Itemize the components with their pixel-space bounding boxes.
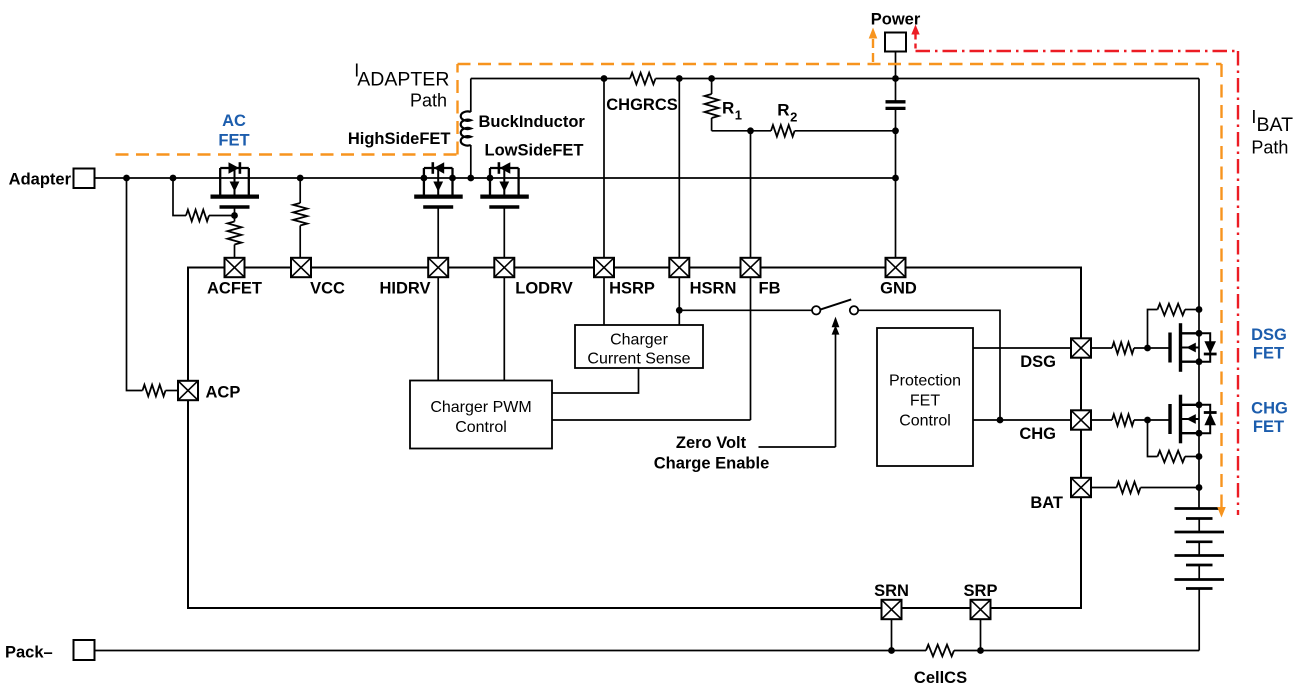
- svg-text:DSG: DSG: [1020, 353, 1056, 371]
- label CHG FET (blue): [1251, 400, 1288, 437]
- wire DSG pullup to rail: [1185, 309, 1199, 311]
- svg-text:Zero Volt: Zero Volt: [676, 434, 747, 452]
- wire HIDRV gate: [437, 207, 439, 258]
- terminal Power: [885, 33, 906, 52]
- junction dot CHG gate node: [1144, 417, 1151, 424]
- svg-text:Pack–: Pack–: [5, 644, 53, 662]
- label CHG: [1019, 425, 1056, 443]
- junction dot HS-FET right stub: [449, 175, 456, 182]
- inductor L1 BuckInductor: [461, 111, 471, 145]
- svg-text:Charger: Charger: [610, 332, 668, 349]
- junction dot power node mid: [892, 127, 899, 134]
- wire FB to PWM block: [552, 419, 751, 421]
- wire SRN lead: [891, 619, 893, 651]
- svg-text:BAT: BAT: [1257, 114, 1294, 136]
- pin HIDRV: [428, 258, 448, 277]
- svg-text:FB: FB: [759, 280, 781, 298]
- terminal Adapter: [74, 169, 95, 189]
- svg-text:DSG: DSG: [1251, 326, 1287, 344]
- junction dot DSG pullup/rail: [1196, 306, 1203, 313]
- pin FB: [741, 258, 761, 277]
- wire HIDRV to PWM block: [437, 277, 439, 380]
- resistor VCC: [293, 203, 307, 226]
- transistor Q1 ACFET: [211, 162, 260, 207]
- wire DSG pullup: [1148, 310, 1158, 349]
- junction dot SRN/bottom net: [888, 647, 895, 654]
- wire R1 to R2: [712, 130, 771, 132]
- pin HSRN: [669, 258, 689, 277]
- junction dot HSRN tap: [676, 75, 683, 82]
- junction dot HSRN/switch node: [676, 307, 683, 314]
- resistor BAT series: [1117, 482, 1141, 494]
- current path IADAPTER (orange dashed): [116, 64, 1222, 507]
- wire HSRN sense: [678, 79, 680, 259]
- junction dot DSG gate node: [1144, 345, 1151, 352]
- svg-text:ACFET: ACFET: [207, 280, 262, 298]
- block Protection FET Control: [877, 328, 973, 466]
- wire CHG pin to gate resistor: [1091, 419, 1112, 421]
- pin SRP: [971, 600, 991, 619]
- label R2: [777, 101, 797, 125]
- wire HSRP to current sense box: [603, 277, 605, 325]
- svg-text:2: 2: [790, 110, 797, 125]
- wire ACFET gate branch: [173, 178, 186, 216]
- svg-text:HSRP: HSRP: [609, 280, 655, 298]
- svg-text:Protection: Protection: [889, 373, 961, 390]
- label LowSideFET: [485, 142, 584, 160]
- resistor R2: [771, 125, 795, 137]
- wire HSRP sense: [603, 79, 605, 259]
- wire LODRV to PWM block: [503, 277, 505, 380]
- pin VCC: [291, 258, 311, 277]
- transistor Q5 CHG FET: [1170, 395, 1217, 444]
- svg-text:CHG: CHG: [1251, 400, 1288, 418]
- label GND: [880, 280, 917, 298]
- svg-text:FET: FET: [1253, 345, 1284, 363]
- transistor Q3 LowSideFET: [480, 162, 529, 207]
- svg-text:Charge Enable: Charge Enable: [654, 455, 770, 473]
- wire R1 bottom lead: [711, 118, 713, 131]
- svg-text:SRN: SRN: [874, 582, 909, 600]
- capacitor C1: [886, 102, 906, 109]
- label IADAPTER Path: [354, 61, 449, 111]
- svg-text:R: R: [722, 99, 734, 118]
- junction dot HSRP tap: [601, 75, 608, 82]
- block Charger PWM Control: [410, 381, 552, 449]
- wire switch input: [679, 309, 812, 311]
- svg-text:BuckInductor: BuckInductor: [479, 113, 586, 131]
- pin ACP: [178, 381, 198, 400]
- junction dot switch/CHG net: [997, 417, 1004, 424]
- label ACFET: [207, 280, 262, 298]
- svg-text:Current Sense: Current Sense: [587, 351, 690, 368]
- label IBAT Path: [1251, 107, 1293, 158]
- wire VCC branch lower: [299, 226, 301, 259]
- svg-text:Path: Path: [410, 90, 447, 110]
- junction dot power/adapter net: [892, 175, 899, 182]
- wire FB upper: [750, 131, 752, 258]
- resistor CHGRCS: [630, 73, 656, 85]
- charger IC body outline U1: [188, 268, 1081, 609]
- resistor ACFET gate pulldown: [228, 222, 242, 245]
- wire battery negative lead: [1198, 589, 1200, 651]
- label Zero Volt Charge Enable: [654, 434, 770, 473]
- junction dot FB tap: [747, 127, 754, 134]
- resistor CHG gate: [1112, 414, 1134, 426]
- junction dot HS-FET left stub: [421, 175, 428, 182]
- svg-text:ADAPTER: ADAPTER: [357, 69, 449, 91]
- wire FB lower: [750, 277, 752, 420]
- svg-text:R: R: [777, 101, 789, 120]
- resistor ACP series: [143, 385, 166, 397]
- pin ACFET: [225, 258, 245, 277]
- label Power: [871, 11, 921, 29]
- wire current sense to PWM block: [552, 368, 639, 393]
- pin BAT: [1071, 478, 1091, 497]
- wire CHG pulldown to rail: [1185, 456, 1199, 458]
- label LODRV: [515, 280, 572, 298]
- junction dot R1 tap: [708, 75, 715, 82]
- wire ACP branch: [127, 178, 143, 391]
- wire top sense net right: [656, 78, 1200, 80]
- wire switch output: [858, 310, 1000, 420]
- resistor DSG gate-source: [1158, 304, 1186, 316]
- wire power vertical upper: [895, 52, 897, 102]
- wire resistor to ACFET pin: [234, 245, 236, 259]
- svg-text:HSRN: HSRN: [690, 280, 737, 298]
- wire resistor to ACP pin: [166, 390, 179, 392]
- wire SRP lead: [980, 619, 982, 651]
- wire BAT pin to resistor: [1091, 487, 1117, 489]
- wire pack- net left: [95, 650, 927, 652]
- label HSRP: [609, 280, 655, 298]
- zero volt enable arrow: [832, 317, 840, 447]
- svg-text:CellCS: CellCS: [914, 669, 967, 687]
- label SRN: [874, 582, 909, 600]
- pin CHG: [1071, 410, 1091, 429]
- label SRP: [964, 582, 998, 600]
- svg-text:Power: Power: [871, 11, 921, 29]
- wire BAT resistor to rail: [1141, 487, 1200, 489]
- junction dot BAT/rail: [1196, 484, 1203, 491]
- label FB: [759, 280, 781, 298]
- wire VCC branch upper: [299, 178, 301, 203]
- resistor ACFET gate series: [186, 210, 209, 222]
- svg-text:Path: Path: [1251, 137, 1288, 157]
- label CellCS: [914, 669, 967, 687]
- wire pack- net right: [954, 650, 1199, 652]
- junction dot inductor/adapter net: [467, 175, 474, 182]
- pin SRN: [882, 600, 902, 619]
- svg-text:Control: Control: [899, 413, 951, 430]
- svg-text:1: 1: [735, 108, 742, 123]
- junction dot CHG pulldown/rail: [1196, 453, 1203, 460]
- wire battery rail: [1198, 79, 1200, 509]
- resistor R1: [705, 94, 719, 118]
- svg-text:CHGRCS: CHGRCS: [606, 96, 678, 114]
- pin HSRP: [594, 258, 614, 277]
- junction dot ACFET gate node: [231, 212, 238, 219]
- wire gate node to resistor: [234, 216, 236, 222]
- svg-text:Control: Control: [455, 419, 507, 436]
- resistor CellCS: [926, 645, 954, 657]
- wire DSG drive: [973, 347, 1071, 349]
- orange arrow to Power: [869, 28, 878, 63]
- block Charger Current Sense: [575, 325, 703, 368]
- wire inductor bottom lead: [470, 145, 472, 178]
- label VCC: [310, 280, 345, 298]
- svg-text:HighSideFET: HighSideFET: [348, 130, 451, 148]
- svg-text:AC: AC: [222, 112, 246, 130]
- junction dot SRP/bottom net: [977, 647, 984, 654]
- wire inductor top lead: [470, 79, 472, 113]
- wire power vertical lower: [895, 109, 897, 258]
- svg-text:FET: FET: [1253, 418, 1284, 436]
- wire R2 to power node: [795, 130, 896, 132]
- resistor DSG gate: [1112, 342, 1134, 354]
- svg-text:Charger PWM: Charger PWM: [430, 399, 531, 416]
- svg-text:FET: FET: [218, 132, 249, 150]
- svg-text:LowSideFET: LowSideFET: [485, 142, 584, 160]
- svg-text:CHG: CHG: [1019, 425, 1056, 443]
- wire LODRV gate: [503, 207, 505, 258]
- pin LODRV: [494, 258, 514, 277]
- label HighSideFET: [348, 130, 451, 148]
- label BAT: [1030, 494, 1063, 512]
- transistor Q4 DSG FET: [1170, 323, 1217, 372]
- label BuckInductor: [479, 113, 586, 131]
- label HSRN: [690, 280, 737, 298]
- label DSG FET (blue): [1251, 326, 1287, 363]
- svg-text:FET: FET: [910, 393, 940, 410]
- wire CHG pulldown: [1148, 420, 1158, 457]
- junction dot LS-FET left stub: [487, 175, 494, 182]
- label R1: [722, 99, 742, 123]
- label HIDRV: [379, 280, 430, 298]
- junction dot adapter/ACP: [123, 175, 130, 182]
- terminal Pack-: [74, 640, 95, 660]
- svg-text:ACP: ACP: [206, 384, 241, 402]
- current path IBAT (red dash-dot): [911, 25, 1238, 516]
- wire CHG drive: [973, 419, 1071, 421]
- orange arrow to battery: [1217, 507, 1226, 518]
- svg-text:Adapter: Adapter: [9, 171, 72, 189]
- switch S1 contacts: [812, 299, 858, 314]
- wire CHG gate resistor to node: [1134, 419, 1170, 421]
- svg-text:HIDRV: HIDRV: [379, 280, 430, 298]
- pin DSG: [1071, 338, 1091, 357]
- wire DSG pin to gate resistor: [1091, 347, 1112, 349]
- battery BT1 pack cells: [1175, 509, 1225, 589]
- junction dot adapter/ACFET-gate: [170, 175, 177, 182]
- svg-text:BAT: BAT: [1030, 494, 1063, 512]
- label Adapter: [9, 171, 72, 189]
- svg-text:SRP: SRP: [964, 582, 998, 600]
- svg-text:LODRV: LODRV: [515, 280, 572, 298]
- resistor CHG gate-source: [1158, 451, 1186, 463]
- transistor Q2 HighSideFET: [414, 162, 463, 207]
- wire HSRN to current sense box: [678, 277, 680, 325]
- svg-text:GND: GND: [880, 280, 917, 298]
- label ACP: [206, 384, 241, 402]
- label Pack-: [5, 644, 53, 662]
- label DSG: [1020, 353, 1056, 371]
- junction dot adapter/VCC: [297, 175, 304, 182]
- label AC FET (blue): [218, 112, 249, 150]
- wire top sense net left: [471, 78, 630, 80]
- wire R1 top lead: [711, 79, 713, 95]
- wire resistor to gate node: [209, 215, 235, 217]
- wire adapter input net: [95, 177, 896, 179]
- wire zero volt label lead: [759, 446, 836, 448]
- wire gate bar to node: [234, 207, 236, 216]
- svg-text:VCC: VCC: [310, 280, 345, 298]
- wire DSG gate resistor to node: [1134, 347, 1170, 349]
- junction dot power node top: [892, 75, 899, 82]
- label CHGRCS: [606, 96, 678, 114]
- pin GND: [886, 258, 906, 277]
